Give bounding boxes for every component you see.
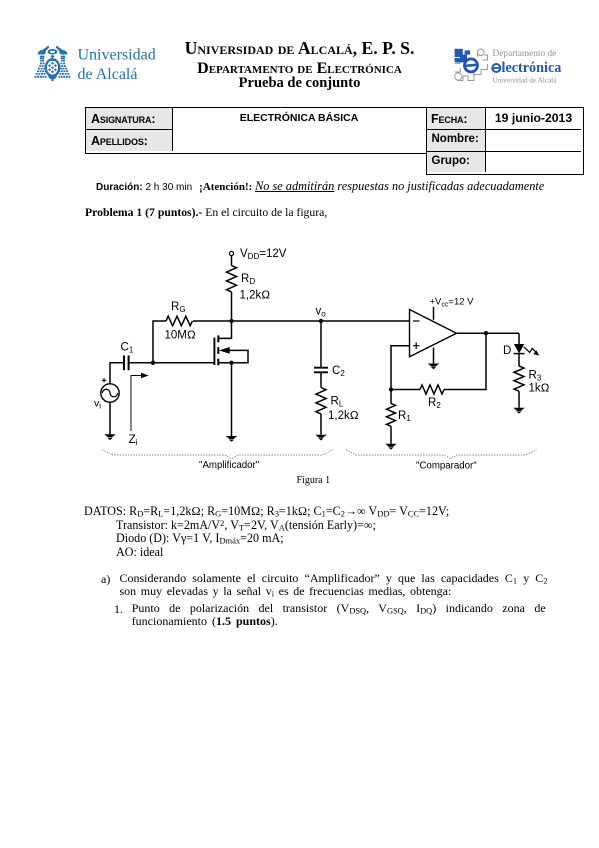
svg-text:"Comparador": "Comparador" <box>416 461 477 472</box>
node gate junction <box>151 361 155 365</box>
resistor RD <box>227 266 237 292</box>
wire op-amp output <box>457 332 520 334</box>
ground op-amp <box>428 364 439 370</box>
capacitor C2 <box>314 368 328 373</box>
wire RL to ground <box>320 414 322 435</box>
wire source lead <box>218 362 231 364</box>
wire diode to R3 <box>518 354 520 366</box>
node source junction <box>229 361 233 365</box>
svg-text:D: D <box>503 345 511 357</box>
wire drain lead <box>218 321 231 338</box>
ground source <box>226 436 237 442</box>
wire vi to ground <box>109 402 111 434</box>
node vo <box>319 319 323 323</box>
svg-text:R3: R3 <box>529 370 542 383</box>
wire junction to R2 <box>391 389 420 391</box>
wire R2 to output node <box>444 333 486 389</box>
node VDD terminal <box>229 251 233 255</box>
op-amp AO <box>410 310 457 357</box>
svg-text:1kΩ: 1kΩ <box>529 383 550 395</box>
source vi <box>101 384 119 402</box>
svg-text:10MΩ: 10MΩ <box>165 330 196 342</box>
ground R1 <box>385 444 396 450</box>
svg-text:R1: R1 <box>398 410 411 423</box>
wire junction to R1 <box>390 390 392 404</box>
svg-text:RL: RL <box>331 396 344 409</box>
resistor RL <box>316 388 326 414</box>
svg-text:1,2kΩ: 1,2kΩ <box>328 410 359 422</box>
LED arrow <box>524 347 536 353</box>
resistor R3 <box>514 366 524 391</box>
wire C1 to gate <box>129 362 215 364</box>
brace amplificador <box>102 450 333 459</box>
resistor RG <box>166 316 192 325</box>
right block <box>426 107 584 175</box>
ground vi <box>104 434 115 440</box>
resistor R2 <box>420 385 444 394</box>
svg-text:RD: RD <box>241 273 255 286</box>
wire main rail drain to op-amp input <box>193 320 410 322</box>
capacitor C1 <box>124 356 129 371</box>
svg-text:vi: vi <box>94 398 101 411</box>
svg-text:R2: R2 <box>428 397 441 410</box>
svg-text:C1: C1 <box>121 342 134 355</box>
wire noninverting input <box>391 346 410 390</box>
svg-text:+Vcc=12 V: +Vcc=12 V <box>430 297 475 309</box>
svg-text:VDD=12V: VDD=12V <box>240 248 287 261</box>
wire R1 to ground <box>390 426 392 444</box>
svg-text:1,2kΩ: 1,2kΩ <box>240 290 271 302</box>
wire output to diode <box>518 333 520 344</box>
wire vo to C2 <box>320 321 322 368</box>
ground RL <box>315 435 326 441</box>
duracion line <box>96 179 544 194</box>
wire VDD to RD <box>231 256 233 266</box>
left block <box>85 107 428 154</box>
figura caption <box>297 475 331 486</box>
transistor M1 (NMOS) <box>214 335 229 365</box>
svg-text:Zi: Zi <box>129 432 138 447</box>
brace comparador <box>346 450 537 459</box>
node feedback junction <box>389 387 393 391</box>
svg-text:vo: vo <box>316 306 327 319</box>
node output junction <box>484 331 488 335</box>
probe Zi arrow <box>131 373 149 431</box>
wire vi to C1 <box>110 363 124 384</box>
problema line <box>85 206 327 219</box>
wire C2 to RL <box>320 372 322 387</box>
svg-text:RG: RG <box>171 301 186 314</box>
svg-text:C2: C2 <box>332 365 345 378</box>
svg-text:"Amplificador": "Amplificador" <box>199 460 260 471</box>
wire op-amp to ground <box>433 348 435 364</box>
wire RD to drain rail <box>231 292 233 321</box>
resistor R1 <box>387 404 396 427</box>
wire source to ground <box>231 363 233 436</box>
wire RG left lead <box>153 321 166 363</box>
diode D (LED) <box>514 344 524 353</box>
wire Vcc <box>433 307 435 320</box>
wire R3 to ground <box>518 391 520 408</box>
ground R3 <box>513 408 524 414</box>
wire bulk return <box>227 350 248 362</box>
node drain junction <box>229 319 233 323</box>
